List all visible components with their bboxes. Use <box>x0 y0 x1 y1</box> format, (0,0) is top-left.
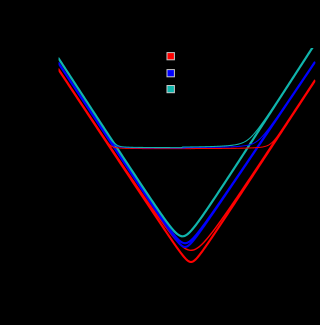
legend swatch teal <box>167 86 174 93</box>
curve blue dark deep <box>59 63 315 247</box>
curve red lower shallow <box>59 69 315 250</box>
legend swatch red <box>167 53 174 60</box>
curve teal lower <box>59 44 315 236</box>
legend swatch blue <box>167 70 174 77</box>
curve red upper flat <box>59 70 315 149</box>
curve blue upper flat <box>59 62 315 148</box>
curve teal upper flat <box>59 44 315 147</box>
curve blue bright <box>59 63 315 244</box>
curve red lower deep <box>59 70 315 262</box>
